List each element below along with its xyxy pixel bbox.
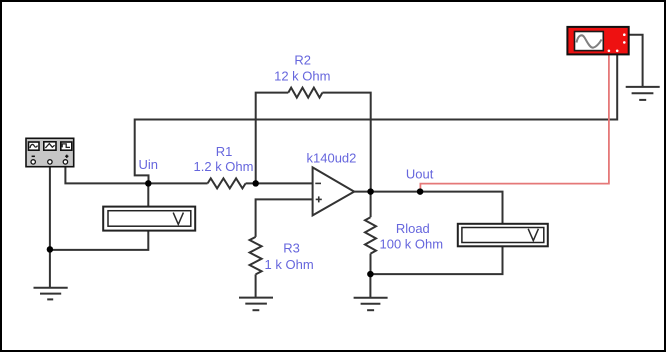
wire from output node down to Rload top [370, 192, 372, 218]
wire from Rload bottom to bottom node [370, 254, 372, 275]
label R2 [294, 52, 311, 67]
svg-text:Uin: Uin [139, 157, 159, 172]
svg-text:Rload: Rload [396, 221, 430, 236]
resistor Rload [365, 217, 376, 253]
op-amp U1 k140ud2 [313, 167, 355, 215]
label R1 [216, 144, 233, 159]
label Rload value [380, 237, 444, 252]
svg-text:k140ud2: k140ud2 [307, 151, 357, 166]
wire from generator + terminal to R1 left end [65, 164, 207, 183]
red wire from oscilloscope A-channel to Uout node [420, 54, 609, 190]
label Rload [396, 221, 430, 236]
wire from R2 right end down to output node [322, 93, 370, 192]
label R3 [283, 241, 300, 256]
node generator common junction [47, 246, 54, 253]
svg-text:Uout: Uout [406, 166, 434, 181]
svg-text:R1: R1 [216, 144, 233, 159]
node inverting input junction [252, 180, 259, 187]
wire from op-amp output to voltmeter V2 top terminal [354, 192, 502, 224]
svg-text:1.2 k Ohm: 1.2 k Ohm [194, 159, 254, 174]
svg-text:R2: R2 [294, 52, 311, 67]
wire from op-amp non-inverting input to R3 top [256, 199, 314, 237]
resistor R2 [288, 88, 322, 98]
label Uout [406, 166, 434, 181]
resistor R3 [250, 237, 262, 275]
svg-text:12 k Ohm: 12 k Ohm [274, 69, 330, 84]
wire from oscilloscope right terminal to ground [629, 35, 643, 87]
label Uin [139, 157, 159, 172]
wire from R3 bottom to ground [255, 274, 257, 297]
wire from oscilloscope B-channel down and across top to Uin branch [135, 54, 618, 183]
node output junction [367, 188, 374, 195]
node Uin junction [145, 180, 152, 187]
label R3 value [265, 257, 314, 272]
wire from Rload bottom node to ground [369, 274, 371, 298]
ground at oscilloscope [626, 87, 660, 100]
wire from voltmeter V1 bottom terminal to generator common stem [50, 231, 148, 250]
oscilloscope [567, 27, 628, 55]
label R1 value [194, 159, 254, 174]
resistor R1 [208, 178, 246, 188]
wire from R1 right end to op-amp inverting input [246, 182, 314, 184]
node Uout junction [417, 188, 424, 195]
label op-amp k140ud2 [307, 151, 357, 166]
function generator [26, 138, 74, 166]
wire generator common terminal down to ground [49, 164, 51, 288]
svg-text:R3: R3 [283, 241, 300, 256]
ground under Rload [354, 298, 388, 310]
ground under R3 [239, 298, 273, 311]
svg-text:1 k Ohm: 1 k Ohm [265, 257, 314, 272]
label R2 value [274, 69, 330, 84]
wire from inverting node up to R2 left end [256, 93, 289, 184]
voltmeter V1 [103, 207, 195, 231]
node Rload bottom junction [367, 271, 374, 278]
voltmeter V2 [458, 224, 548, 247]
wire from Rload bottom node to voltmeter V2 bottom terminal [370, 246, 502, 274]
svg-text:100 k Ohm: 100 k Ohm [380, 237, 444, 252]
ground under generator [34, 288, 68, 300]
wire from Uin node to voltmeter V1 top terminal [147, 183, 149, 206]
